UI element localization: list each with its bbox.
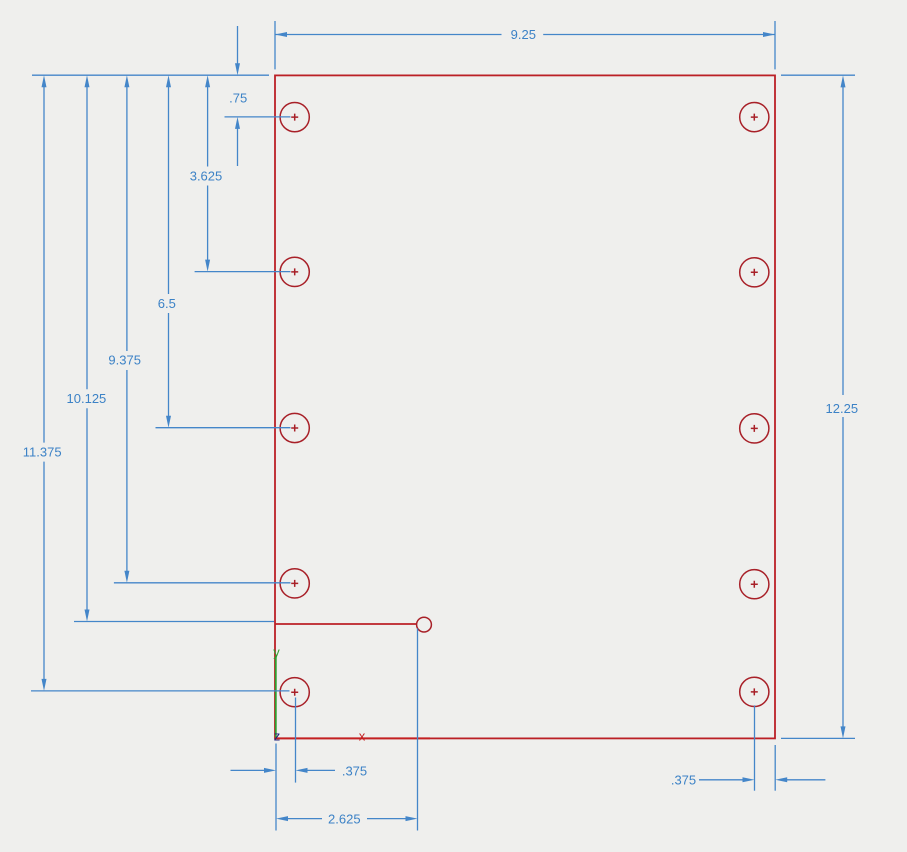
dimension .375 right arrow a	[743, 777, 755, 782]
hole H8 (right row3)	[740, 414, 769, 443]
extension line: top-right corner up	[774, 21, 776, 69]
leader row5	[31, 690, 290, 692]
svg-text:9.375: 9.375	[108, 353, 141, 368]
svg-text:2.625: 2.625	[328, 812, 361, 827]
extension line: top-left corner up	[274, 21, 276, 69]
hole H1 (top-left)	[280, 103, 309, 132]
dimension 2.625 right arrow	[406, 816, 418, 821]
dimension 2.625 left arrow	[276, 816, 288, 821]
extension line: notch circle down	[417, 629, 419, 831]
svg-text:10.125: 10.125	[67, 391, 107, 406]
dimension .75 top outside arrow	[237, 26, 239, 65]
extension line: right of bottom-right corner	[781, 737, 855, 739]
dimension 6.5 line	[168, 86, 170, 417]
svg-text:9.25: 9.25	[511, 27, 536, 42]
dimension 9.25 right arrow	[763, 32, 775, 37]
dimension .75 bottom outside arrow	[237, 128, 239, 166]
UCS X axis	[275, 737, 430, 739]
notch end circle	[417, 617, 432, 632]
dimension 3.625 bottom arrow	[205, 260, 210, 272]
dimension .375 right arrow b	[775, 777, 787, 782]
svg-text:z: z	[274, 729, 281, 744]
extension line: bottom-right corner down	[774, 745, 776, 791]
dimension 10.125 top arrow	[85, 75, 90, 87]
leader row1	[225, 116, 291, 118]
dimension 11.375 bottom arrow	[42, 679, 47, 691]
hole H4 (left row4)	[280, 569, 309, 598]
svg-text:3.625: 3.625	[190, 168, 223, 183]
hole H2 (left row2)	[280, 257, 309, 286]
svg-text:11.375: 11.375	[23, 444, 62, 459]
extension line: hole H10 center down	[754, 705, 756, 790]
dimension .375 left arrow b	[296, 768, 308, 773]
hole H3 (left row3)	[280, 413, 309, 442]
leader notch	[74, 621, 274, 623]
dimension 9.25 left arrow	[275, 32, 287, 37]
svg-text:y: y	[273, 645, 280, 660]
dimension 10.125 bottom arrow	[85, 610, 90, 622]
hole H5 (bottom-left)	[280, 678, 309, 707]
dimension .375 right (outside arrows)	[699, 779, 825, 781]
dimension 6.5 bottom arrow	[166, 416, 171, 428]
dimension 9.375 line	[126, 86, 128, 572]
extension line: top edge leftward	[32, 74, 269, 76]
svg-text:6.5: 6.5	[158, 296, 176, 311]
dimension 6.5 top arrow	[166, 75, 171, 87]
dimension 12.25 line	[842, 86, 844, 727]
hole H9 (right row4)	[740, 570, 769, 599]
dimension 10.125 line	[86, 86, 88, 610]
dimension 9.375 top arrow	[124, 75, 129, 87]
dimension 11.375 line	[43, 86, 45, 680]
svg-text:.375: .375	[671, 773, 696, 788]
svg-text:.75: .75	[229, 91, 247, 106]
dimension 3.625 top arrow	[205, 75, 210, 87]
dimension 3.625 line	[207, 86, 209, 260]
dimension .375 left (outside arrows)	[231, 769, 336, 771]
leader row2	[195, 271, 291, 273]
leader row4	[114, 582, 291, 584]
dimension 9.25 line	[275, 34, 775, 36]
extension line: bottom-left corner down	[275, 744, 277, 831]
dimension 2.625 line	[287, 818, 407, 820]
svg-text:12.25: 12.25	[826, 401, 859, 416]
svg-text:x: x	[359, 729, 366, 744]
UCS Y axis	[275, 656, 277, 738]
svg-text:.375: .375	[342, 763, 367, 778]
leader row3	[156, 427, 291, 429]
extension line: hole H5 center down	[295, 698, 297, 783]
plate outline	[275, 75, 775, 738]
hole H10 (bottom-right)	[740, 677, 769, 706]
dimension .375 left arrow a	[264, 768, 276, 773]
hole H7 (right row2)	[740, 258, 769, 287]
dimension 11.375 top arrow	[42, 75, 47, 87]
dimension 12.25 top arrow	[841, 75, 846, 87]
dimension 12.25 bottom arrow	[841, 726, 846, 738]
dimension 9.375 bottom arrow	[124, 571, 129, 583]
hole H6 (top-right)	[740, 103, 769, 132]
notch line	[275, 623, 417, 625]
extension line: right of top-right corner	[781, 74, 855, 76]
